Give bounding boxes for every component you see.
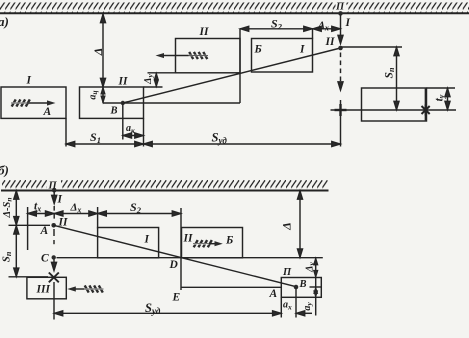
svg-text:S2: S2 [130,200,142,215]
vertical through cross down to S dim (a) [340,100,342,147]
svg-text:В: В [110,106,118,117]
dimension a_k (a) [123,135,144,137]
horizontal line from II to right (a) [341,46,403,48]
dimension Delta (a) vertical line [102,14,104,87]
extension at A level (b) [9,224,51,226]
dimension S1 (a) [66,143,144,145]
rectangle III (b) [27,277,66,299]
dimension Delta_y (a) [155,73,157,87]
bottom edge extension of upper II (a) [148,72,176,74]
dimension Delta_y (b) [315,258,317,278]
svg-text:Sп: Sп [1,251,13,262]
svg-text:Δу: Δу [143,74,154,85]
workpiece B/I rectangle (a, right) [252,39,313,73]
point B (b) [294,285,299,290]
vertical from P with arrow (a) [340,13,342,37]
horizontal line at y=110 (a) [331,109,457,111]
diagonal line B to II (a) [123,48,341,103]
dimension S_ud (a) [144,143,341,145]
svg-text:tу: tу [434,94,446,101]
svg-text:ак: ак [126,123,135,135]
tool II rectangle (a, middle) [80,87,144,118]
svg-text:А: А [43,106,52,118]
svg-text:Б: Б [254,44,262,56]
dash below A, C dot, arrow (b) [53,229,55,236]
diagonal A to B (b) [54,225,296,286]
svg-text:Δ: Δ [279,222,293,231]
svg-text:I: I [57,194,63,206]
svg-text:Е: Е [172,292,181,304]
svg-text:II: II [199,26,209,38]
svg-text:А: А [40,225,49,237]
E level line (b) [181,286,281,288]
svg-text:S1: S1 [90,130,101,145]
vertical at D/E x=181 (b) [180,208,182,290]
dimension S2 (a) [240,28,313,30]
workpiece I rectangle (a, left) [1,87,66,118]
dimension S_ud (b) [54,312,281,314]
svg-text:I: I [26,75,32,87]
line at B level (a) [103,102,240,104]
rectangle with B (b, right) [281,278,321,298]
svg-text:S2: S2 [271,17,283,32]
rectangle II/B (b) [182,228,243,258]
extension lines for a_x (b) [280,297,282,317]
dimension row t_x / Delta_x / S2 (b) [27,207,29,250]
top edge extension of middle II (a) [144,86,163,88]
svg-text:б): б) [0,163,9,178]
svg-text:В: В [299,279,307,290]
extension line below I rect (a) [65,118,67,146]
svg-text:П: П [335,2,345,13]
svg-text:Б: Б [225,235,233,247]
svg-text:III: III [36,284,51,296]
svg-text:А: А [269,288,278,300]
S2 extension line at right of B rect (a) [312,29,314,39]
long vertical line x=240 (a) [239,29,241,103]
feed arrow in I (a) [11,99,56,106]
svg-text:I: I [345,17,351,29]
ceiling hatch a [0,3,336,14]
svg-text:tх: tх [34,201,41,214]
dimension Delta_x (a) [313,28,341,30]
cross marker (a) [335,109,347,111]
a_y dim line through rect (b) [315,278,317,316]
extension from B down (a) [122,103,124,140]
svg-text:Δу: Δу [304,262,315,273]
dimension Delta (b) [299,191,301,258]
svg-text:ау: ау [302,302,313,311]
svg-text:Sуд: Sуд [145,301,161,316]
bottom plane line (b) [57,257,323,259]
feed arrow in II (b), points right [193,240,223,247]
vertical through III rect down to S dim (b) [53,282,55,320]
a_x right arrow (b) [296,312,312,314]
svg-text:II: II [118,76,128,88]
svg-text:ац: ац [87,90,98,99]
dimension S_p (b) [15,225,17,276]
dimension S_p (a) [396,47,398,110]
svg-text:П: П [282,267,292,278]
svg-text:II: II [58,217,68,229]
svg-text:Δ-Sп: Δ-Sп [2,197,13,218]
svg-text:I: I [144,234,150,246]
dimension Delta-S_p (b) [15,191,17,226]
extension line below II rect (a) [143,118,145,146]
svg-text:Sп: Sп [384,67,396,78]
ceiling hatch b [2,180,47,191]
X cross marker (b) [49,273,59,283]
point P on ceiling (b) [52,188,57,193]
svg-text:ах: ах [283,300,292,312]
vertical from P with arrow (b) [53,191,55,197]
svg-text:П: П [48,181,58,192]
ceiling line a [0,12,469,14]
dashed to A (b) [53,206,55,222]
extension at X level (b) [9,276,49,278]
tool II rectangle (a, upper) [176,39,241,73]
svg-text:D: D [169,259,179,271]
point A (b) [51,223,56,228]
ceiling line b [1,190,329,192]
point P on ceiling (a) [338,11,343,16]
svg-text:Δх: Δх [70,202,82,215]
point II (a) [338,46,343,51]
feed arrow into III (b), points left [67,285,103,292]
svg-text:I: I [299,44,305,56]
dimension t_y (a) [447,88,449,110]
top edge extension (a right) [427,87,456,89]
svg-text:С: С [41,253,49,265]
svg-text:Sуд: Sуд [212,131,228,146]
point B (a) [121,101,125,105]
star marker (a) [422,104,430,115]
rectangle I (b) [98,228,159,258]
workpiece rectangle (a, far right) [362,88,427,121]
svg-text:а): а) [0,14,9,29]
dashed line below II with arrow (a) [340,53,342,83]
dimension a_c (a) [102,87,104,103]
svg-text:II: II [325,36,335,48]
svg-text:Δх: Δх [317,20,329,33]
svg-text:II: II [183,233,193,245]
svg-text:Δ: Δ [91,48,105,57]
feed arrow in II upper (a), points left [156,52,209,59]
